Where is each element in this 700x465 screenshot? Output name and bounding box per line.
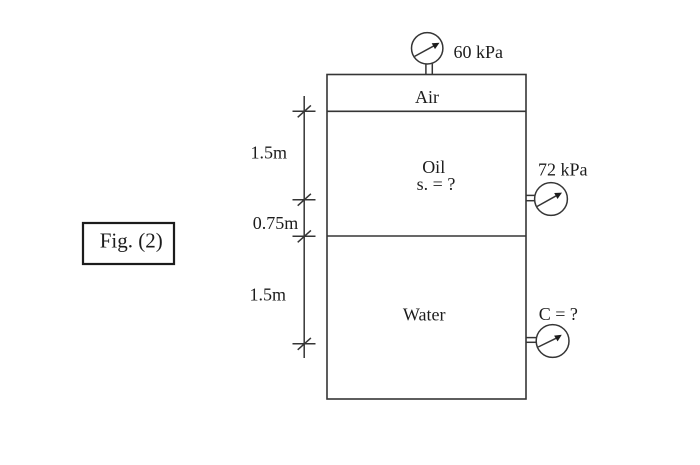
svg-text:1.5m: 1.5m <box>251 143 288 163</box>
air/oil interface line <box>327 110 526 112</box>
pressure gauge P2 (72 kPa) <box>526 183 567 216</box>
svg-text:C = ?: C = ? <box>539 304 578 324</box>
svg-text:60 kPa: 60 kPa <box>454 42 504 62</box>
pressure gauge P1 (60 kPa) <box>412 33 443 75</box>
svg-text:1.5m: 1.5m <box>250 285 287 305</box>
svg-text:s. = ?: s. = ? <box>417 174 456 194</box>
svg-text:Fig. (2): Fig. (2) <box>100 229 163 253</box>
svg-text:Air: Air <box>415 87 439 107</box>
tick at bottom level <box>293 343 316 345</box>
svg-text:72 kPa: 72 kPa <box>538 160 588 180</box>
figure caption box <box>83 223 174 264</box>
tick at air/oil level <box>293 110 316 112</box>
dimension line (vertical) <box>293 96 316 358</box>
svg-text:0.75m: 0.75m <box>253 213 299 233</box>
oil/water interface line <box>327 235 526 237</box>
svg-text:Water: Water <box>403 305 446 325</box>
tank outline <box>327 75 526 400</box>
tick at oil mid level <box>293 199 316 201</box>
tick at oil/water level <box>293 235 316 237</box>
pressure gauge P3 (C = ?) <box>526 325 569 358</box>
